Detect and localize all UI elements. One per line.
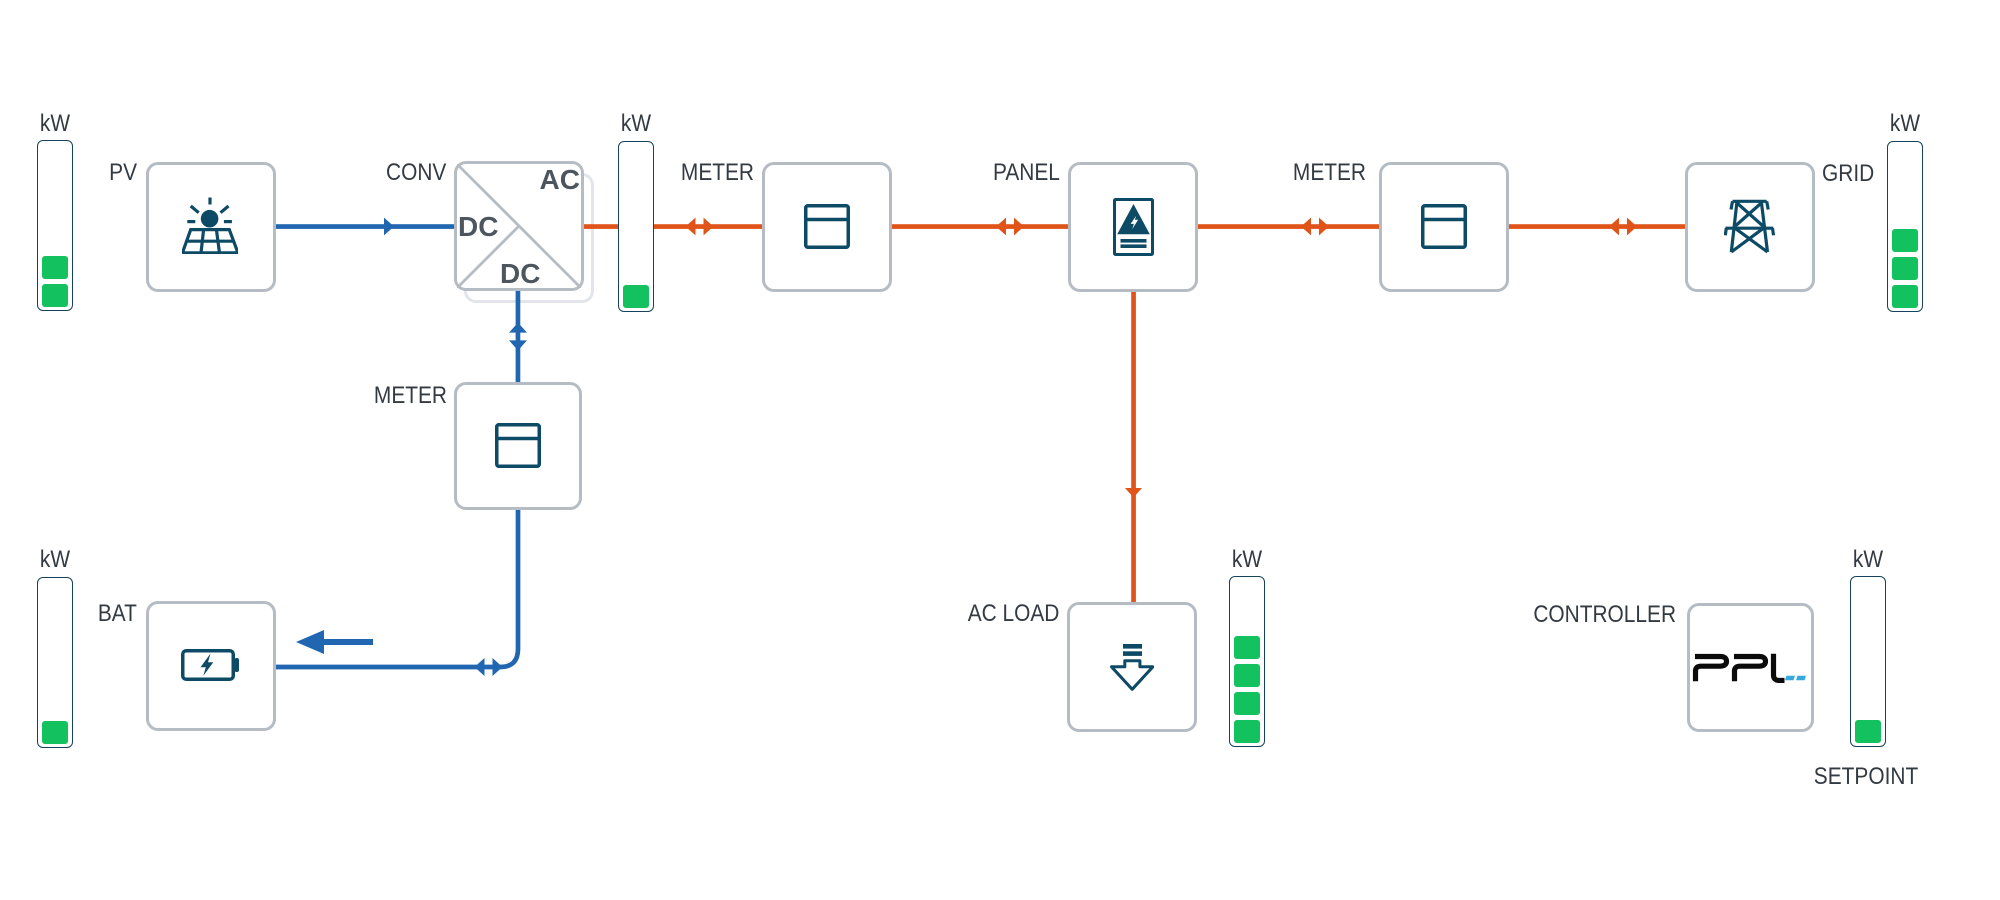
arrow bidirectional METER-BAT <box>475 658 503 676</box>
panel icon <box>1113 198 1154 256</box>
PPL controller logo <box>1691 651 1807 683</box>
label DC (bottom input) <box>500 259 540 289</box>
node PV <box>109 159 137 187</box>
arrow bidirectional CONV-METER vertical <box>509 323 527 351</box>
grid transmission tower icon <box>1724 199 1776 255</box>
arrow bidirectional PANEL-METER <box>1301 218 1329 236</box>
arrow bidirectional METER-GRID <box>1609 218 1637 236</box>
PV solar panel icon <box>182 197 238 254</box>
gauge CONV kW <box>610 110 662 138</box>
gauge BAT kW <box>29 546 81 574</box>
label SETPOINT <box>1814 763 1918 791</box>
meter icon <box>1421 204 1467 249</box>
node PANEL <box>993 159 1060 187</box>
node METER (battery) <box>374 382 447 410</box>
arrow bidirectional CONV-METER <box>686 218 714 236</box>
battery icon <box>181 649 239 681</box>
node CONTROLLER <box>1533 601 1676 629</box>
gauge GRID kW <box>1879 110 1931 138</box>
converter shadow box <box>464 173 594 303</box>
node CONV <box>386 159 446 187</box>
meter icon <box>804 204 850 249</box>
node METER (AC) <box>681 159 754 187</box>
meter icon <box>495 423 541 468</box>
wire PV to CONV (DC) <box>275 224 454 229</box>
node GRID <box>1822 160 1874 188</box>
label DC (left input) <box>458 212 498 242</box>
arrow flow PV to CONV <box>384 218 394 236</box>
arrow bidirectional METER-PANEL <box>996 218 1024 236</box>
arrow flow to AC LOAD <box>1125 488 1142 498</box>
label AC <box>540 165 580 195</box>
wire METER to BAT (bent, DC) <box>275 510 518 667</box>
wire METER to PANEL (AC) <box>892 224 1068 229</box>
wire PANEL to METER (AC) <box>1198 224 1379 229</box>
wire CONV to METER (AC) <box>584 224 762 229</box>
wire CONV to battery METER (DC) <box>516 291 521 382</box>
node METER (grid) <box>1293 159 1366 187</box>
arrow charge flow into BAT <box>296 630 373 654</box>
wire METER to GRID (AC) <box>1507 224 1685 229</box>
gauge SETPOINT kW <box>1842 546 1894 574</box>
AC load icon <box>1110 643 1154 691</box>
gauge PV kW <box>29 110 81 138</box>
node AC LOAD <box>967 600 1059 628</box>
node BAT <box>98 600 137 628</box>
wire PANEL to AC LOAD <box>1131 292 1136 602</box>
gauge AC LOAD kW <box>1221 546 1273 574</box>
CONV diagonal dividers <box>457 164 581 288</box>
